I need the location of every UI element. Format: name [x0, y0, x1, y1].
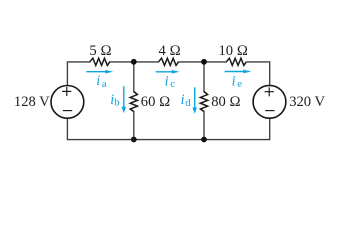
wire: top rail right segment to source	[247, 62, 270, 86]
current arrow i_c	[156, 70, 180, 74]
svg-text:4 Ω: 4 Ω	[159, 43, 181, 59]
svg-text:i: i	[181, 92, 185, 108]
svg-text:5 Ω: 5 Ω	[89, 43, 111, 59]
svg-text:60 Ω: 60 Ω	[141, 94, 170, 110]
svg-text:a: a	[102, 78, 107, 90]
svg-text:d: d	[185, 97, 191, 109]
node A dot (top, 60ohm)	[131, 59, 137, 65]
current arrow i_d	[192, 87, 197, 114]
wire: top rail between 4ohm and node B	[179, 61, 226, 63]
V1 minus sign	[63, 110, 72, 112]
svg-text:c: c	[170, 78, 175, 90]
current arrow i_a	[86, 70, 113, 74]
voltage source V1 128V circle	[51, 86, 84, 119]
svg-text:80 Ω: 80 Ω	[211, 94, 240, 110]
wire: bottom rail	[67, 118, 269, 139]
current arrow i_b	[122, 86, 127, 113]
resistor 4 ohm	[159, 58, 179, 65]
svg-text:b: b	[114, 97, 119, 109]
V2 minus sign	[265, 110, 274, 112]
svg-text:128 V: 128 V	[14, 94, 50, 110]
resistor 60 ohm (vertical)	[130, 92, 137, 112]
wire: top rail between 5ohm and node A	[110, 61, 159, 63]
wire: 60ohm branch bottom stub	[133, 112, 135, 140]
wire: 80ohm branch top stub	[203, 62, 205, 92]
node C dot (bottom, 60ohm)	[131, 137, 137, 143]
current arrow i_e	[225, 70, 252, 74]
wire: top rail left segment	[67, 62, 269, 140]
svg-text:i: i	[232, 74, 236, 90]
svg-text:320 V: 320 V	[289, 94, 325, 110]
wire: 60ohm branch top stub	[133, 62, 135, 92]
resistor 5 ohm	[90, 58, 110, 65]
V1 plus sign	[62, 87, 71, 96]
svg-text:10 Ω: 10 Ω	[218, 43, 247, 59]
resistor 80 ohm (vertical)	[200, 92, 207, 112]
wire: 80ohm branch bottom stub	[203, 112, 205, 140]
svg-text:e: e	[237, 78, 242, 90]
voltage source V2 320V circle	[253, 85, 286, 118]
node D dot (bottom, 80ohm)	[201, 137, 207, 143]
svg-text:i: i	[96, 73, 100, 89]
V2 plus sign	[265, 87, 274, 96]
svg-text:i: i	[165, 73, 169, 89]
node B dot (top, 80ohm)	[201, 59, 207, 65]
resistor 10 ohm	[226, 58, 246, 65]
